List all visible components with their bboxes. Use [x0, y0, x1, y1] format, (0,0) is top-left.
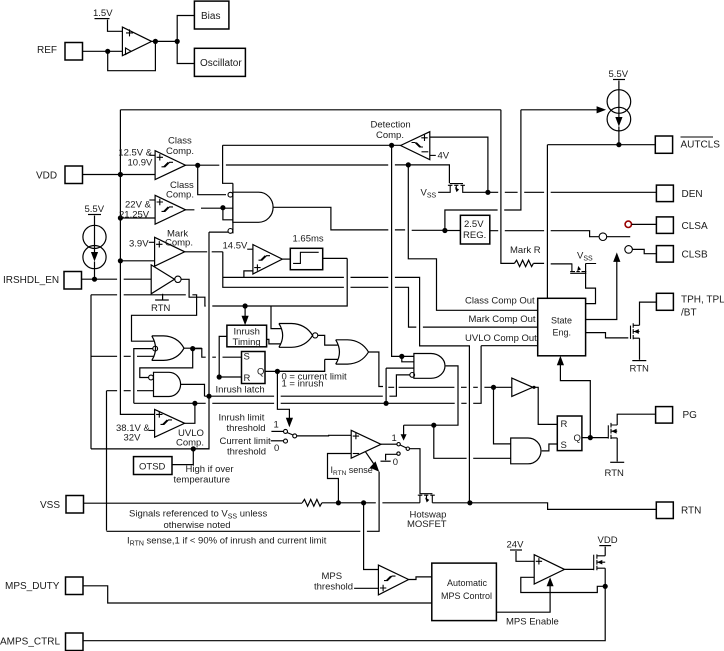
- svg-text:Comp.: Comp.: [166, 146, 194, 157]
- wire IRTN sense output down and left (hop at 363.6): [107, 472, 380, 532]
- wire x=209 vertical bus (AND1 bubble to OTSD line): [193, 232, 209, 449]
- comparator U8 triangle: [155, 409, 185, 437]
- wire AND3 middle input: [386, 367, 414, 369]
- pad VDD: [65, 166, 83, 184]
- comparator U7 triangle: [253, 245, 282, 274]
- svg-text:MPS Enable: MPS Enable: [506, 617, 559, 628]
- comparator U3 input tick: [149, 199, 155, 201]
- svg-text:Inrush latch: Inrush latch: [216, 385, 265, 396]
- switch SW3 pivot circle: [599, 233, 607, 241]
- wire contact 0 open stub: [386, 454, 397, 460]
- wire MPS output feedback to - loop: [550, 586, 605, 592]
- svg-text:AMPS_CTRL: AMPS_CTRL: [0, 637, 60, 648]
- wire REF pad to op-amp - input: [83, 50, 123, 52]
- svg-text:S: S: [561, 440, 567, 451]
- node comp2 output dot: [220, 205, 225, 210]
- svg-text:R: R: [244, 373, 251, 384]
- wire State Eng top feed from AUTCLS net: [546, 145, 548, 299]
- node AND3 output branch dot: [431, 423, 436, 428]
- current source I1 arrow: [94, 227, 96, 255]
- comparator U3 plus sign: [157, 199, 163, 205]
- svg-text:0: 0: [393, 457, 398, 468]
- node AUTCLS label with overline: [681, 136, 714, 138]
- wire junction up to Bias box: [177, 16, 194, 42]
- current source I1 (5.5V to IRSHDL_EN) circles: [83, 225, 106, 248]
- wire AND4 output to PG latch S: [542, 444, 558, 451]
- gate AND1 body: [233, 192, 273, 222]
- ground RTN below inverter: [162, 294, 164, 300]
- comparator U8 input tick: [149, 429, 155, 431]
- op-amp U9 error amp triangle: [351, 430, 381, 458]
- node comp1 out to class-out dot: [406, 162, 411, 167]
- svg-text:High if over: High if over: [186, 464, 234, 475]
- comparator U2 plus sign: [157, 154, 163, 160]
- wire detection net down to AND3: [392, 145, 414, 356]
- current source I2 arrow: [618, 92, 620, 120]
- svg-text:2.5V: 2.5V: [464, 219, 484, 230]
- wire current source to IRSHDL_EN wire: [94, 262, 96, 280]
- wire sense resistor to hotswap source (hop at 379.1): [322, 502, 420, 504]
- mosfet Q5 arrow: [611, 429, 616, 434]
- wire y=403.3 UVLO out bus (hops at 209 277.4 458 469.9): [134, 346, 481, 404]
- gate AND4 body: [511, 438, 541, 464]
- svg-text:Class Comp Out: Class Comp Out: [465, 296, 535, 307]
- node hotswap net dot 1: [467, 500, 472, 505]
- svg-text:RTN: RTN: [151, 303, 170, 314]
- wire AND3 output to current-limit select: [404, 366, 458, 425]
- wire op-amp output: [152, 40, 178, 42]
- svg-text:IRTN sense,1 if < 90% of inrus: IRTN sense,1 if < 90% of inrush and curr…: [127, 536, 327, 548]
- wire OTSD output up to y449 line: [172, 449, 193, 465]
- svg-text:CLSA: CLSA: [682, 221, 708, 232]
- comparator U6 hysteresis glyph: [412, 143, 424, 148]
- svg-text:1: 1: [392, 433, 397, 444]
- power rail 1.5V bar: [95, 18, 110, 20]
- node PG Q dot: [588, 435, 593, 440]
- wire AND3 middle input riser: [385, 368, 387, 403]
- svg-text:Q: Q: [574, 433, 581, 444]
- gate AND1 bubble input top: [228, 192, 233, 197]
- arrowhead into State Eng bottom: [557, 356, 564, 366]
- wire op-amp - input loop: [521, 577, 550, 592]
- svg-text:REF: REF: [37, 45, 57, 56]
- wire x=106.5 vertical (IRTN sense feedback): [106, 391, 108, 531]
- svg-text:0: 0: [274, 443, 279, 454]
- comparator U3 triangle: [155, 195, 185, 224]
- buffer U10 triangle: [512, 378, 533, 396]
- svg-text:MPS: MPS: [322, 571, 343, 582]
- wire CLSB contact to pad: [632, 249, 656, 253]
- svg-text:Automatic: Automatic: [447, 578, 488, 588]
- node AND3 middle input dot: [384, 401, 389, 406]
- wire inverter output staircase to timing line: [181, 258, 347, 306]
- wire AND1 bottom bubble from x=209 bus: [209, 231, 228, 233]
- resistor R1 (RTN sense): [302, 499, 322, 506]
- wire Q down to inrush threshold switch arrow: [277, 371, 289, 422]
- switch SW2 pivot: [406, 447, 409, 450]
- block Automatic MPS Control box: [432, 563, 497, 621]
- wire inrush threshold to contact 1: [271, 430, 283, 432]
- svg-text:Comp.: Comp.: [176, 438, 204, 449]
- svg-text:TPH, TPL: TPH, TPL: [681, 295, 724, 306]
- block Bias box: [194, 1, 229, 29]
- svg-text:OTSD: OTSD: [139, 462, 166, 473]
- svg-text:5.5V: 5.5V: [609, 69, 629, 80]
- wire rail into current source: [618, 81, 620, 93]
- pad TPH TPL BT: [656, 293, 673, 310]
- node detection net dot: [389, 143, 394, 148]
- mosfet Q5 channel segments: [610, 423, 612, 439]
- wire comp2 output (hop at 197.7): [186, 208, 233, 210]
- wire PG source to RTN: [616, 438, 618, 462]
- comparator U2 triangle: [155, 151, 185, 180]
- wire OR2 out line to buffer (hops at 469.9 481.1): [388, 386, 512, 388]
- wire detection comp + to DEN node: [430, 137, 488, 192]
- wire junction down to Oscillator box: [177, 41, 194, 63]
- wire mark comp output to Mark Comp Out routing (hop at 209.5): [185, 251, 223, 253]
- inverter U5 triangle (IRSHDL_EN): [151, 265, 174, 294]
- wire current source to AUTCLS node: [618, 127, 620, 145]
- node 2.5V REG input dot: [442, 228, 447, 233]
- op-amp U9 plus sign: [353, 433, 359, 439]
- ground RTN bar (PG): [610, 461, 624, 463]
- wire MPS_DUTY to Automatic MPS Control: [83, 586, 432, 603]
- node OR1 output dot: [190, 346, 195, 351]
- op-amp U1 plus sign: [126, 29, 133, 36]
- switch SW4 contact CLSB: [625, 246, 633, 254]
- gate OR2 body: [336, 340, 369, 364]
- wire 5.5V rail into current source: [94, 216, 96, 228]
- wire AMPS_CTRL to MPS output node: [83, 586, 605, 640]
- power rail 24V bar: [510, 549, 522, 551]
- wire 24V rail to op-amp +: [516, 551, 534, 561]
- comparator U4 plus sign: [156, 241, 162, 247]
- switch SW2 contact 1: [397, 443, 400, 446]
- svg-text:5.5V: 5.5V: [85, 204, 105, 215]
- inverter U5 bubble: [175, 276, 181, 282]
- svg-text:VSS: VSS: [40, 500, 60, 511]
- wire hotswap drain to RTN pad: [432, 503, 656, 510]
- node junction dot on - input: [105, 49, 110, 54]
- wire comp1 out down to AND1 bubble input: [198, 165, 226, 194]
- block PG latch box: [557, 416, 582, 451]
- node AND3 tied input dot: [399, 354, 404, 359]
- switch SW2 blade: [400, 445, 406, 448]
- node comp1 output dot: [195, 163, 200, 168]
- wire to mark comp minus: [120, 260, 154, 262]
- wire PG drain to pad: [617, 414, 655, 425]
- wire 14.5V comp + input tap: [244, 271, 253, 278]
- svg-text:RTN: RTN: [605, 468, 624, 479]
- node VDD junction dot: [118, 172, 123, 177]
- node MPS output dot: [603, 584, 608, 589]
- ground RTN bar (TPH): [632, 360, 646, 362]
- svg-text:10.9V: 10.9V: [128, 158, 153, 169]
- power rail VDD bar: [599, 545, 611, 547]
- wire 1.5V rail to op-amp + input: [108, 20, 123, 32]
- gate AND3 bubble input: [410, 373, 415, 378]
- wire VDD rail to mosfet source: [604, 547, 606, 556]
- svg-text:1: 1: [274, 420, 279, 431]
- wire PG latch Q output: [582, 437, 608, 439]
- wire y=396.2 bus (hops at 277.4 386.1): [205, 375, 410, 396]
- node inrush timing feed dot: [243, 303, 248, 308]
- gate AND2 body: [154, 372, 181, 396]
- comparator U6 triangle (points left): [401, 132, 430, 160]
- svg-text:Mark R: Mark R: [510, 245, 541, 256]
- svg-text:RTN: RTN: [681, 506, 701, 517]
- comparator U11 triangle: [378, 565, 408, 595]
- node IRSHDL junction dot: [92, 277, 97, 282]
- node AUTCLS junction dot: [616, 142, 621, 147]
- wire one-shot output loop down to NOR input: [323, 257, 348, 259]
- mosfet Q4 gate bar: [630, 326, 632, 339]
- wire AND2 bottom input from VSS/IRTN vertical (hops at 120.4 133.8): [107, 390, 154, 392]
- mosfet Q3 body: [570, 263, 596, 273]
- svg-text:Inrush limit: Inrush limit: [219, 413, 265, 424]
- wire top net from y=145.3 into AND1 bar top: [223, 145, 233, 183]
- wire MPS sense tap down to MPS comparator: [364, 503, 379, 570]
- svg-text:Detection: Detection: [371, 120, 411, 131]
- comparator U11 plus sign: [380, 585, 386, 591]
- svg-text:VDD: VDD: [36, 171, 57, 182]
- wire OR2 output to current limit select arrow: [369, 352, 384, 387]
- svg-text:otherwise noted: otherwise noted: [164, 520, 231, 531]
- wire MPS threshold to + input: [354, 587, 378, 589]
- node buffer input dot: [491, 385, 496, 390]
- pad AUTCLS: [655, 136, 672, 153]
- svg-text:14.5V: 14.5V: [223, 241, 248, 252]
- switch SW2 contact 0: [397, 452, 400, 455]
- wire TPH drain to pad: [640, 302, 657, 325]
- wire UVLO output up to y403 bus: [185, 403, 195, 423]
- resistor R2 zigzag: [514, 260, 533, 266]
- wire CLSA contact to pad: [632, 223, 657, 225]
- svg-text:32V: 32V: [124, 433, 142, 444]
- mosfet Q2 arrow: [425, 498, 429, 503]
- wire AND2 output to y396 bus: [181, 384, 205, 396]
- wire AND3 branch down to AND4 input (hop at 469.9): [434, 425, 511, 458]
- switch SW1 blade: [287, 433, 293, 435]
- svg-text:MPS Control: MPS Control: [441, 591, 492, 601]
- svg-text:1 = inrush: 1 = inrush: [282, 379, 324, 390]
- pad IRSHDL_EN: [64, 272, 82, 290]
- block OTSD box: [134, 457, 173, 475]
- block 1.65ms pulse glyph: [293, 252, 319, 263]
- comparator U3 hysteresis glyph: [162, 207, 174, 212]
- wire Inrush Timing left input from R node: [219, 336, 227, 377]
- gate AND1 input bar: [232, 183, 234, 233]
- gate AND3 body: [414, 354, 445, 379]
- pad PG: [656, 407, 673, 424]
- wire IRSHDL_EN to inverter (hop at x=120.4): [82, 278, 152, 280]
- node error amp sense tap dot: [336, 500, 341, 505]
- wire VDD top line corner down to Mark R: [501, 110, 515, 264]
- wire error amp output to switch: [381, 443, 397, 445]
- wire error amp - input jog to sense node: [328, 454, 352, 503]
- wire OR1 output to latch S input (hops at 209 219.2): [193, 349, 242, 358]
- block Oscillator box: [194, 48, 245, 76]
- svg-text:24V: 24V: [507, 540, 525, 551]
- svg-text:Oscillator: Oscillator: [200, 58, 242, 69]
- wire enable arrow into current source: [521, 109, 600, 111]
- op-amp U12 plus sign: [536, 558, 542, 564]
- op-amp U12 triangle: [534, 555, 564, 584]
- comparator U4 triangle: [155, 237, 185, 266]
- pad RTN: [656, 502, 673, 519]
- svg-text:MOSFET: MOSFET: [407, 519, 447, 530]
- comparator U7 input tick: [247, 248, 253, 250]
- wire latch R input: [219, 376, 241, 378]
- switch SW1 contact 0: [284, 439, 288, 443]
- node latch R dot: [217, 374, 222, 379]
- wire Class Comp Out routing to State Eng: [408, 165, 537, 310]
- gate NOR1 body: [279, 324, 313, 348]
- block Inrush Timing box: [227, 325, 267, 347]
- wire buffer output to PG latch R: [534, 387, 557, 424]
- current source I2 circles: [607, 90, 631, 114]
- svg-text:State: State: [551, 316, 572, 326]
- comparator U6 4V input tick: [430, 154, 436, 156]
- svg-text:Mark Comp Out: Mark Comp Out: [469, 314, 536, 325]
- gate OR1 body: [152, 336, 184, 361]
- wire mosfet drain to output node: [604, 568, 606, 586]
- svg-text:PG: PG: [683, 410, 698, 421]
- op-amp U1 (reference buffer): [122, 27, 151, 56]
- node comp2 minus dot: [118, 215, 123, 220]
- wire switch pivot to hotswap gate: [410, 449, 421, 494]
- switch SW3 contact CLSA (red): [625, 221, 631, 227]
- switch SW1 contact 1: [284, 429, 288, 433]
- wire x=91 vertical: [90, 295, 92, 449]
- svg-text:Bias: Bias: [201, 11, 220, 22]
- wire AND3 tied input branch: [402, 356, 414, 361]
- comparator U7 hysteresis glyph: [259, 256, 271, 261]
- power rail 5.5V bar (left): [88, 214, 101, 216]
- wire VSS mark mosfet to State Eng jog: [586, 264, 596, 304]
- wire Inrush Timing output to NOR bottom input: [267, 339, 281, 344]
- gate AND1 bubble input bottom: [228, 229, 233, 234]
- comparator U8 hysteresis glyph: [161, 420, 173, 425]
- svg-text:21.25V: 21.25V: [119, 210, 150, 221]
- node output junction dot: [175, 39, 180, 44]
- wire PG Q feedback up to State Eng arrow: [560, 360, 590, 437]
- svg-text:R: R: [561, 419, 568, 430]
- svg-text:temperauture: temperauture: [174, 475, 231, 486]
- mosfet Q6 channel segments: [596, 554, 598, 570]
- mosfet Q4 stubs: [633, 325, 639, 338]
- arrowhead AND3 output onto contact 1: [403, 425, 405, 435]
- svg-text:/BT: /BT: [681, 308, 697, 319]
- comparator U2 input tick: [149, 154, 155, 156]
- mosfet Q4 arrow: [634, 329, 639, 334]
- wire y=277.4 line (mark vert to UVLO-out routing): [223, 277, 538, 502]
- comparator U2 hysteresis glyph: [162, 162, 174, 167]
- wire comp1 output long (hops at 222.6, 391.5): [186, 165, 450, 183]
- node UVLO output dot: [192, 401, 197, 406]
- wire VDD vertical bus x=120.4: [120, 110, 155, 415]
- pad DEN: [656, 185, 673, 202]
- wire detection comp output line y=145.3: [223, 144, 401, 146]
- comparator U8 plus sign: [156, 411, 162, 417]
- svg-text:CLSB: CLSB: [682, 250, 708, 261]
- block 1.65ms one-shot box: [290, 248, 322, 269]
- node latch Q dot: [275, 369, 280, 374]
- wire AUTCLS node to pad and to State Eng: [547, 144, 655, 146]
- wire error amp gate-drive diagonal arrow: [366, 452, 374, 464]
- wire NOR1 output to OR2 top input: [318, 335, 338, 345]
- arrowhead MPS Enable up: [547, 577, 554, 586]
- mosfet Q5 gate bar: [607, 425, 609, 438]
- wire switch pivot to error amp +: [297, 434, 352, 437]
- comparator U7 plus sign: [254, 264, 260, 270]
- svg-text:Comp.: Comp.: [165, 238, 193, 249]
- svg-text:1.65ms: 1.65ms: [293, 234, 324, 245]
- wire top horizontal VDD net: [120, 109, 501, 111]
- mosfet Q6 gate bar: [593, 555, 595, 571]
- wire State Eng right to TPH gate: [586, 333, 629, 338]
- mosfet Q6 stubs: [597, 556, 605, 568]
- wire y=448.9 line: [91, 448, 209, 450]
- comparator U6 plus sign: [421, 135, 427, 141]
- wire comp2 out tied branch to AND1 lower input: [223, 208, 233, 220]
- svg-text:Class: Class: [168, 136, 192, 147]
- comparator U6 minus sign: [422, 151, 429, 153]
- wire MPS comparator output to control box: [409, 577, 432, 580]
- pad REF: [65, 43, 83, 61]
- mosfet Q1 arrow: [455, 187, 459, 192]
- mosfet Q3 arrow: [577, 266, 581, 271]
- node op-amp output dot: [153, 39, 158, 44]
- svg-text:Signals referenced to VSS unle: Signals referenced to VSS unless: [129, 509, 267, 521]
- wire AND1 output to 2.5V REG line: [273, 207, 445, 230]
- pad AMPS_CTRL: [66, 633, 84, 651]
- block Inrush latch box: [242, 352, 266, 384]
- power rail 5.5V bar (right): [613, 79, 625, 81]
- pad CLSB: [656, 246, 673, 263]
- node mark comp minus dot: [118, 258, 123, 263]
- svg-text:Comp.: Comp.: [166, 190, 194, 201]
- svg-text:DEN: DEN: [682, 189, 703, 200]
- svg-text:VDD: VDD: [598, 535, 618, 546]
- block State Eng box: [538, 298, 586, 356]
- wire x=520.9 vertical from arrow to 2.5V node: [445, 110, 521, 231]
- mosfet Q5 stubs: [611, 425, 617, 438]
- arrowhead inrush select: [286, 418, 293, 428]
- wire comparator to one-shot: [282, 258, 290, 260]
- wire latch Q output: [265, 370, 325, 372]
- svg-text:threshold: threshold: [227, 423, 266, 434]
- wire DEN net to pad (hops at 501.5 520.9 547.4): [488, 191, 657, 193]
- svg-text:Q: Q: [257, 367, 264, 378]
- svg-text:IRSHDL_EN: IRSHDL_EN: [3, 275, 59, 286]
- svg-text:S: S: [244, 352, 250, 363]
- svg-text:UVLO Comp Out: UVLO Comp Out: [465, 333, 537, 344]
- switch SW3 blade: [607, 236, 631, 238]
- svg-text:Current limit: Current limit: [220, 436, 272, 447]
- svg-text:4V: 4V: [438, 151, 450, 162]
- wire VDD pad to comparator inputs: [83, 174, 156, 176]
- node MPS sense tap dot: [361, 500, 366, 505]
- wire Mark R to VSS mosfet (hop at 547.4): [533, 262, 571, 265]
- svg-text:threshold: threshold: [314, 582, 353, 593]
- svg-text:Timing: Timing: [233, 337, 261, 348]
- wire TPH source to RTN: [639, 338, 641, 360]
- op-amp U1 minus mark: [126, 48, 132, 54]
- pad VSS: [66, 496, 84, 514]
- svg-text:MPS_DUTY: MPS_DUTY: [5, 581, 60, 592]
- wire State Eng right to CLSB arrow: [586, 257, 617, 319]
